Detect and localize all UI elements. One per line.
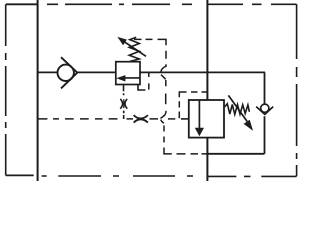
check valve CV2 seat: [256, 107, 273, 115]
V2 remote pilot loop (dashed): [179, 92, 207, 118]
check valve CV2 circle: [261, 104, 269, 112]
pilot crossing hop at main line: [161, 66, 166, 79]
check valve CV1 circle: [57, 65, 73, 81]
bypass loop bottom line: [207, 153, 264, 155]
drain/pilot line from tank line (dashed): [38, 118, 118, 120]
relief valve V1 body: [116, 62, 140, 85]
enclosure bottom border: [6, 175, 297, 176]
pilot vertical upper (dashed): [165, 51, 167, 67]
pilot vertical lower (dashed): [163, 126, 165, 143]
pilot vertical middle (dashed): [165, 80, 167, 104]
supply line (main vertical): [206, 0, 208, 181]
V1 adjustment arrow: [125, 42, 147, 56]
enclosure top border (chain line): [6, 3, 297, 5]
enclosure right border: [296, 4, 298, 176]
tank line (vertical): [37, 0, 39, 181]
pilot crossing hop at drain line: [161, 111, 167, 123]
V2 spring: [225, 104, 250, 115]
V1 drain stub: [123, 85, 125, 96]
pilot line continuing to V2 (dashed): [168, 118, 175, 120]
V2 internal flow arrow: [198, 100, 200, 128]
V1 internal flow arrow: [122, 77, 140, 79]
bypass loop right vertical: [264, 72, 266, 153]
check valve CV1 seat: [61, 57, 77, 88]
restrictor on pilot line: [134, 115, 148, 123]
pilot elbow to valve V2 outlet line (dashed): [164, 148, 172, 154]
orifice (fixed restrictor) under V1: [123, 99, 125, 108]
V1 spring: [129, 37, 139, 61]
vent pilot dashes to main line: [148, 72, 150, 89]
V2 adjustment arrow: [228, 95, 247, 121]
main horizontal pressure line: [38, 71, 265, 73]
counterbalance valve V2 body: [189, 100, 224, 138]
V1 vent port elbow: [138, 85, 145, 91]
enclosure left border: [5, 4, 7, 175]
pilot line from V1 spring (dashed): [134, 39, 166, 45]
